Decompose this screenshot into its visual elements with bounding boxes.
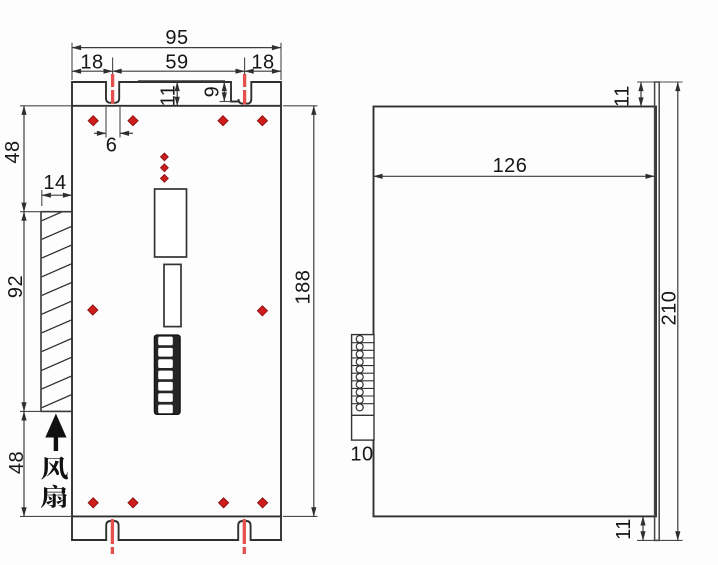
svg-text:11: 11	[158, 85, 180, 107]
svg-text:10: 10	[350, 444, 373, 466]
dimension 6 extension lines below top-left slot	[106, 107, 120, 138]
svg-text:11: 11	[612, 85, 634, 107]
svg-text:48: 48	[2, 140, 24, 163]
side view terminal connector block	[352, 335, 374, 441]
dimension 188 line	[313, 106, 315, 517]
fan grille hatched area	[41, 170, 72, 427]
front view body top edge line	[72, 105, 281, 107]
dimension 6 line with outside arrows	[94, 132, 106, 134]
svg-text:48: 48	[6, 451, 28, 474]
red centerline of top-right slot	[243, 74, 246, 105]
three small indicator holes	[161, 153, 169, 161]
svg-text:59: 59	[165, 52, 188, 74]
left dimension chain extension lines	[20, 106, 72, 517]
dimension 95 line	[72, 47, 281, 49]
svg-text:14: 14	[43, 172, 66, 194]
label 风 (fan)	[41, 457, 68, 480]
bottom flange edge with two slots	[72, 521, 281, 540]
dimension 18/59/18 tick extensions at slot centers	[113, 58, 245, 75]
mounting holes middle	[88, 305, 98, 315]
svg-text:9: 9	[202, 86, 224, 98]
dimension 95 extension lines	[72, 43, 281, 80]
red centerline of top-left slot	[111, 74, 114, 104]
front view body bottom edge line	[72, 515, 281, 517]
dimension 11 line (flange height)	[176, 82, 178, 106]
connector block 1	[155, 189, 187, 257]
front view left and right side edges	[72, 106, 281, 540]
dimension 188 extension lines	[283, 106, 318, 517]
thicker recessed edge between top slots	[138, 80, 225, 82]
svg-text:95: 95	[165, 27, 188, 49]
front view outline with top mounting flange slots	[72, 82, 281, 106]
svg-text:188: 188	[293, 270, 315, 305]
side view back mounting plate	[655, 82, 660, 540]
red centerline of bottom-right slot	[243, 519, 246, 555]
svg-text:6: 6	[106, 135, 118, 157]
dimension 18/59/18 line segments	[72, 70, 113, 72]
connector block 2	[164, 264, 181, 326]
dimension 11 bottom-right line	[642, 516, 644, 540]
dimension 126 line	[374, 175, 655, 177]
dimension 14 extension line	[41, 190, 43, 206]
dimension 11 top-right line	[640, 82, 642, 107]
dimension 9 extension line	[220, 101, 232, 103]
fan direction arrow	[45, 414, 66, 452]
mounting holes (red diamonds) top row	[88, 116, 98, 126]
label 扇 (fan)	[41, 485, 67, 508]
side view top extension line	[637, 81, 683, 83]
svg-text:92: 92	[5, 275, 27, 298]
svg-text:210: 210	[659, 291, 681, 326]
mounting holes bottom row	[88, 498, 98, 508]
svg-text:126: 126	[493, 155, 528, 177]
red centerline of bottom-left slot	[111, 519, 114, 555]
dimension 14 line	[42, 194, 72, 196]
svg-text:18: 18	[251, 52, 274, 74]
svg-text:18: 18	[80, 52, 103, 74]
side view body outline	[374, 107, 657, 517]
left dimension chain line 48/92/48	[23, 106, 25, 212]
dimension 9 line	[223, 82, 225, 102]
DIP switch block	[154, 335, 180, 414]
side view bottom extension line	[637, 539, 683, 541]
dimension 210 line	[677, 82, 679, 540]
svg-text:11: 11	[613, 518, 635, 540]
